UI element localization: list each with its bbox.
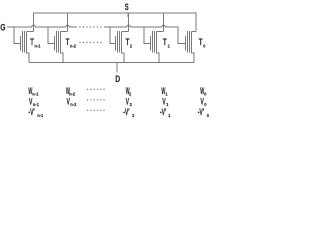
svg-text:-V′: -V′ <box>28 106 35 117</box>
svg-text:-V′: -V′ <box>198 106 205 117</box>
svg-text:V: V <box>126 96 130 107</box>
svg-text:n-2: n-2 <box>70 102 77 107</box>
svg-text:D: D <box>115 74 120 84</box>
svg-text:T: T <box>126 37 130 48</box>
svg-text:n-2: n-2 <box>69 91 76 96</box>
svg-text:V: V <box>200 96 204 107</box>
svg-text:2: 2 <box>129 91 132 96</box>
svg-text:T: T <box>163 37 167 48</box>
svg-text:0: 0 <box>204 91 207 96</box>
svg-text:n-2: n-2 <box>70 43 77 48</box>
svg-text:T: T <box>30 37 34 48</box>
svg-text:0: 0 <box>207 112 210 117</box>
svg-text:2: 2 <box>130 43 133 48</box>
svg-text:n-1: n-1 <box>37 112 44 117</box>
svg-text:T: T <box>199 37 203 48</box>
svg-text:n-1: n-1 <box>34 43 41 48</box>
svg-text:2: 2 <box>130 102 133 107</box>
svg-text:-V′: -V′ <box>160 106 167 117</box>
svg-text:1: 1 <box>168 43 171 48</box>
svg-text:S: S <box>125 2 129 13</box>
svg-text:2: 2 <box>132 112 135 117</box>
svg-text:0: 0 <box>204 102 207 107</box>
svg-text:T: T <box>66 37 70 48</box>
svg-text:-V′: -V′ <box>123 106 130 117</box>
svg-text:G: G <box>0 22 5 32</box>
svg-text:1: 1 <box>165 91 168 96</box>
svg-text:n-1: n-1 <box>32 91 39 96</box>
svg-text:0: 0 <box>203 43 206 48</box>
svg-text:1: 1 <box>166 102 169 107</box>
svg-text:1: 1 <box>168 112 171 117</box>
